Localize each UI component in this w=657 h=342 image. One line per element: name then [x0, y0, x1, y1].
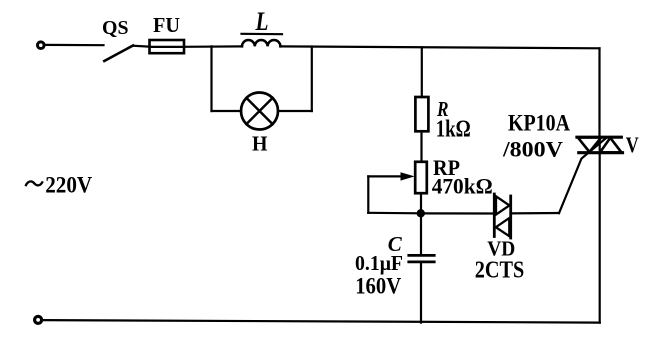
wire switch to fuse: [133, 46, 150, 47]
svg-text:H: H: [252, 132, 268, 156]
diac VD left bar: [493, 194, 496, 237]
diac VD right bar: [509, 196, 512, 238]
wire junction down to capacitor C: [420, 213, 422, 255]
label ~220V tilde: [26, 181, 43, 186]
lamp H circle: [241, 93, 278, 130]
svg-text:2CTS: 2CTS: [475, 258, 525, 284]
label L underline: [242, 33, 283, 36]
wire top-left to switch: [44, 44, 103, 46]
diac VD upper triangle: [496, 196, 509, 214]
capacitor C bottom plate: [409, 260, 434, 263]
svg-text:0.1μF: 0.1μF: [355, 251, 403, 275]
svg-text:KP10A: KP10A: [508, 111, 570, 136]
triac V right triangle: [600, 138, 622, 153]
wire lamp branch left vertical: [210, 46, 212, 111]
wire bottom: [42, 320, 600, 323]
svg-text:160V: 160V: [355, 273, 401, 298]
svg-text:V: V: [626, 132, 639, 157]
wire top to resistor R: [421, 47, 423, 97]
junction node dot: [417, 209, 425, 217]
terminal top-left: [38, 42, 45, 49]
wire lamp branch right horizontal: [278, 110, 312, 112]
wire lamp branch right vertical: [311, 47, 313, 112]
wire wiper to junction: [368, 212, 421, 215]
fuse FU body: [150, 40, 185, 53]
wire capacitor to bottom: [420, 262, 422, 323]
potentiometer RP body: [415, 162, 427, 193]
wire junction to diac VD: [421, 212, 494, 214]
potentiometer RP wiper arrow: [368, 175, 403, 177]
triac gate diagonal: [559, 138, 606, 213]
svg-text:470kΩ: 470kΩ: [432, 173, 493, 198]
terminal bottom-left: [35, 316, 42, 323]
wire lamp branch left horizontal: [212, 110, 242, 112]
wire R to RP: [420, 131, 422, 162]
capacitor C top plate: [409, 254, 434, 257]
diac VD lower triangle: [496, 218, 510, 236]
svg-text:FU: FU: [153, 13, 180, 37]
triac V bottom bar: [579, 151, 623, 154]
wire fuse to inductor: [184, 45, 242, 48]
triac V top bar: [577, 136, 621, 139]
switch QS blade: [104, 46, 133, 62]
fuse FU element line: [150, 46, 185, 48]
svg-text:QS: QS: [102, 17, 129, 39]
svg-text:L: L: [255, 7, 269, 36]
wire triac through symbol down to bottom: [599, 137, 601, 323]
resistor R body: [415, 97, 428, 131]
svg-text:220V: 220V: [45, 173, 92, 198]
wire top-right corner down to triac: [598, 48, 600, 137]
lamp H cross: [246, 98, 272, 124]
wire RP to junction: [420, 193, 422, 213]
triac V left triangle: [578, 137, 601, 152]
inductor L coil: [242, 40, 280, 46]
svg-text:/800V: /800V: [502, 137, 563, 162]
wire diac to gate bend: [511, 212, 559, 215]
wire wiper down: [367, 176, 369, 212]
wire inductor to top-right corner: [280, 46, 599, 48]
svg-text:1kΩ: 1kΩ: [436, 117, 471, 143]
